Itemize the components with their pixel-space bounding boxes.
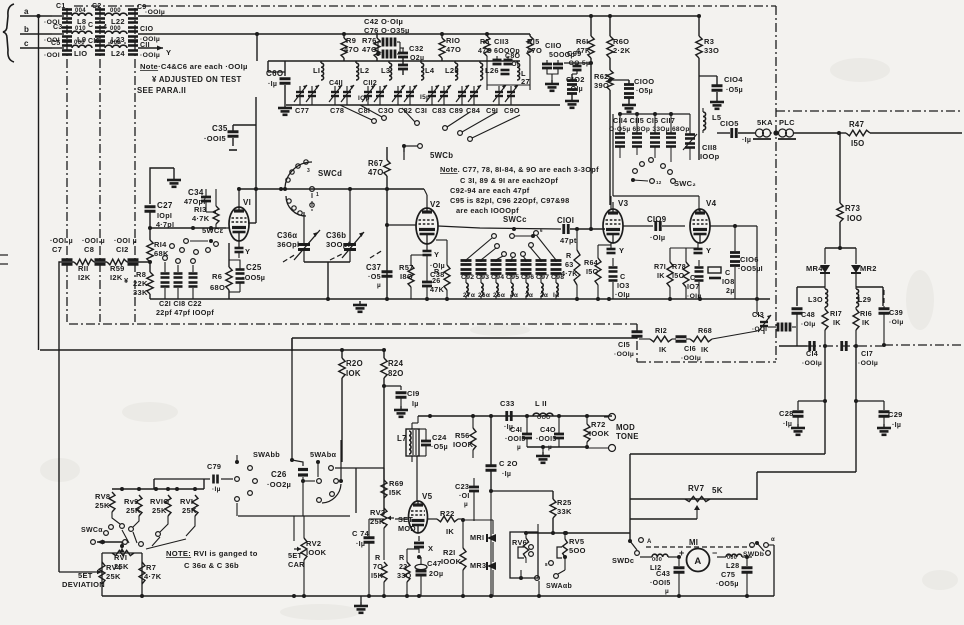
wire main ground bus [150,298,770,300]
wire MR stub left [797,287,825,306]
screen frame right vertical [775,6,777,362]
wire audio down right [854,346,858,472]
potentiometer RV3 [370,508,416,560]
wire R20 vert [340,348,386,352]
svg-text:¥ ADJUSTED ON TEST: ¥ ADJUSTED ON TEST [152,75,242,84]
svg-text:¥: ¥ [124,276,129,285]
svg-text:·OOIµ: ·OOIµ [858,360,878,367]
svg-text:IK: IK [833,318,841,327]
svg-text:·OIµ: ·OIµ [650,233,665,242]
capacitor C37 [366,263,393,289]
screen column 1 [66,8,68,322]
note text oscillator [440,165,599,215]
capacitor C113 [493,37,521,64]
capacitor C107 [687,260,704,300]
wire rv2 col [537,524,539,532]
wire input stub d [0,255,8,264]
svg-text:MRI: MRI [470,533,484,542]
capacitor C17 [842,341,878,367]
svg-text:·OOI µ: ·OOI µ [82,238,105,245]
svg-text:R: R [566,251,572,260]
capacitor C10 [128,26,160,43]
resistor R16 [853,307,872,346]
wire SWCz drop [611,196,699,211]
wire R69 top [355,467,357,469]
screen frame right top horizontal [776,110,962,112]
wire box drop [291,338,293,460]
capacitor C8 [82,238,106,264]
svg-text:C79: C79 [207,462,221,471]
resistor R64 [584,245,601,299]
svg-text:·OI: ·OI [459,493,470,500]
svg-text:I5K: I5K [389,488,402,497]
svg-text:5WCb: 5WCb [430,151,453,160]
capacitor C74 [352,519,384,596]
svg-text:VI: VI [243,198,251,207]
wire rv riser [154,479,210,489]
svg-text:R: R [399,553,405,562]
svg-text:Y: Y [619,246,624,255]
svg-text:I5p: I5p [420,94,430,101]
svg-text:LI: LI [313,66,320,75]
svg-text:4·7K: 4·7K [144,572,162,581]
switch SWCz box [613,114,699,196]
svg-text:C25: C25 [246,263,262,272]
wire rv1 drop [120,542,124,551]
text NOTE ganged [166,549,258,570]
svg-text:5OOOp: 5OOOp [549,52,575,59]
svg-text:SWDc: SWDc [612,556,634,565]
svg-text:36Opl: 36Opl [277,240,299,249]
svg-text:IOK: IOK [346,369,361,378]
ground C27 [167,176,181,187]
capacitor C75 [716,555,753,598]
wire af bus [292,338,637,351]
capacitor C48 [792,309,816,346]
wire mod line [418,414,612,418]
svg-text:C36b: C36b [326,231,346,240]
svg-text:R7I: R7I [654,262,666,271]
svg-text:RII: RII [78,264,88,273]
svg-text:IOOK: IOOK [306,548,327,557]
svg-text:R24: R24 [388,359,404,368]
svg-text:C 36α & C 36b: C 36α & C 36b [184,561,239,570]
svg-text:IOO: IOO [847,214,862,223]
capacitor C25 [229,260,265,292]
capacitor C3 [44,24,72,44]
svg-text:3: 3 [307,168,310,174]
capacitor C43 [650,555,685,598]
svg-text:5WCε: 5WCε [202,226,224,235]
svg-text:82O: 82O [388,369,404,378]
resistor R11 [74,259,94,282]
wire input brace [3,4,14,62]
svg-text:IK: IK [862,318,870,327]
terminal MOD bottom [587,445,616,452]
svg-text:·O5µ: ·O5µ [726,87,743,94]
svg-text:CII4 CII5 CI6 CII7: CII4 CII5 CI6 CII7 [613,116,675,125]
svg-text:C92-94 are each 47pf: C92-94 are each 47pf [450,186,530,195]
resistor R59 [107,259,127,282]
svg-text:C24: C24 [432,433,447,442]
svg-text:25α: 25α [493,292,505,299]
svg-text:47O: 47O [368,168,384,177]
resistor R62 [594,70,613,205]
capacitor C2 [92,3,105,23]
cluster box C113 sides [487,85,530,90]
svg-text:−: − [712,548,718,558]
svg-text:C4I: C4I [510,425,522,434]
svg-text:·OO5µ: ·OO5µ [716,581,739,588]
inductor L8 [72,8,92,26]
svg-text:C77: C77 [295,106,309,115]
svg-text:RI7: RI7 [830,309,842,318]
svg-text:25K: 25K [152,506,167,515]
svg-text:2·2K: 2·2K [613,46,631,55]
box RV4 R7 [102,553,142,596]
svg-text:Y: Y [245,247,250,256]
svg-text:·OOIµ: ·OOIµ [802,360,822,367]
svg-text:26: 26 [432,276,441,285]
wire V5 cathode [414,536,433,559]
capacitor C33 [500,399,515,431]
svg-text:R59: R59 [110,264,125,273]
svg-text:L4: L4 [425,66,435,75]
screen frame bottom left [69,323,637,325]
svg-text:V2: V2 [430,200,441,209]
svg-text:L II: L II [535,399,547,408]
svg-text:47pt: 47pt [560,236,577,245]
svg-text:IO3: IO3 [617,281,630,290]
svg-text:C3I: C3I [415,106,427,115]
svg-text:R56: R56 [455,431,470,440]
wire line c arrow [138,46,171,58]
resistor R9 [341,34,359,61]
svg-text:MR3: MR3 [470,561,486,570]
inductor L4 [421,61,435,80]
resistor R23 [397,549,419,598]
capacitor C118 [700,130,720,161]
resistor R47 [837,120,962,148]
svg-text:SWC₂: SWC₂ [674,179,696,188]
switch SWCz [631,158,696,188]
inductor L10 [72,40,92,58]
svg-text:·Iµ: ·Iµ [502,471,511,478]
svg-text:PLC: PLC [779,118,795,127]
capacitor C110 [542,41,575,91]
svg-text:·OOI5: ·OOI5 [204,134,226,143]
svg-text:R73: R73 [845,204,861,213]
svg-text:·OOI5: ·OOI5 [650,580,671,587]
resistor R22 [428,509,463,536]
capacitor C100 [608,77,654,112]
svg-text:I2K: I2K [78,273,91,282]
svg-text:C75: C75 [721,570,735,579]
resistor R13 [192,189,219,228]
svg-text:DEVIATION: DEVIATION [62,580,105,589]
svg-text:CII8: CII8 [702,143,717,152]
wire C40 bottom [527,445,587,463]
capacitor C7 [50,238,73,264]
svg-text:L22: L22 [111,17,125,26]
text SET DEVIATION [62,571,105,589]
capacitor C105 [717,119,755,144]
wire V4 cathode [694,243,712,255]
svg-text:C32: C32 [409,44,424,53]
svg-text:A: A [647,539,652,545]
capacitor C34 [184,188,211,212]
inductor L30 [808,287,828,307]
capacitor C104 [699,75,743,109]
capacitor C13 [752,299,771,334]
svg-text:39O: 39O [594,81,609,90]
svg-text:Y: Y [706,246,711,255]
capacitor C35 [204,124,239,150]
svg-text:TONE: TONE [616,432,639,441]
inductor L24 [105,40,127,58]
svg-text:·OOI µ: ·OOI µ [50,238,73,245]
switch SWCc fan [466,234,556,260]
wire C20 junction [489,489,553,596]
ground C60 [278,104,292,115]
capacitor C26 [267,458,315,516]
capacitor C101 [557,216,605,245]
wire rv wiper lines [122,530,186,549]
svg-text:C95 is 82pI, C96 22Opf, C97&98: C95 is 82pI, C96 22Opf, C97&98 [450,196,570,205]
wire SWCb stem [403,152,405,160]
svg-text:2α: 2α [540,292,548,299]
inductor L12 [650,554,679,572]
svg-text:C29: C29 [888,410,903,419]
wire C35 riser [233,97,258,223]
capacitor C14 [802,341,822,367]
capacitor C16 [672,337,701,362]
wire rv top bus [112,487,204,491]
svg-text:R: R [375,553,381,562]
svg-text:6: 6 [540,228,543,233]
svg-text:RI2: RI2 [655,326,667,335]
inductor L5 [703,108,721,130]
capacitor C40 [536,416,564,451]
svg-text:Y: Y [434,250,439,259]
connector SKA PLC [753,118,838,139]
svg-text:Iα: Iα [553,292,559,299]
wire C36 bottom [304,262,350,299]
svg-text:C27: C27 [157,201,173,210]
svg-text:CII3: CII3 [494,37,509,46]
svg-text:L24: L24 [111,49,125,58]
capacitor C23 [455,478,479,521]
svg-text:R6: R6 [212,272,222,281]
wire C27 top [150,168,174,204]
svg-text:·Iµ: ·Iµ [268,81,277,88]
svg-text:27α: 27α [463,292,475,299]
potentiometer RV9 [124,495,142,531]
svg-text:RV2: RV2 [306,539,321,548]
svg-text:µ: µ [665,588,669,595]
wire discr dashdot right [884,344,962,346]
svg-text:R72: R72 [591,420,606,429]
valve V4 [690,199,717,243]
wire IF drop [59,262,60,572]
resistor R70 [371,553,387,596]
svg-text:C92: C92 [461,274,474,281]
capacitor C18 [174,259,183,299]
svg-text:CIO6: CIO6 [740,255,759,264]
svg-text:α: α [771,537,775,543]
svg-text:µ: µ [377,282,381,289]
wire discr line [779,344,884,348]
potentiometer RV10 [150,495,171,536]
resistor R76 [362,33,380,61]
svg-text:22K: 22K [133,279,148,288]
wire audio corner right [757,472,856,500]
trimmer labels row [295,106,520,115]
node b [20,25,52,34]
inductor row labels [463,292,559,299]
svg-text:CAR: CAR [288,560,305,569]
valve V3 [603,199,629,243]
svg-text:IK: IK [446,527,454,536]
svg-text:b: b [24,25,29,34]
svg-text:·OOI: ·OOI [44,52,60,59]
svg-text:63: 63 [565,260,574,269]
svg-text:IO8: IO8 [722,277,735,286]
svg-text:C89: C89 [449,106,463,115]
resistor R26 [430,240,450,299]
resistor R67 [368,147,390,299]
wire grid line V1 [150,226,226,230]
capacitor C15 [614,325,643,358]
svg-text:IK: IK [657,271,665,280]
svg-text:·OO5µ: ·OO5µ [242,273,265,282]
svg-text:IOOK: IOOK [441,557,462,566]
svg-text:CI6: CI6 [684,344,696,353]
svg-text:·Iµ: ·Iµ [212,486,221,493]
wire V2 out [438,226,561,229]
resistor R5 [478,32,492,56]
svg-text:C37: C37 [366,263,381,272]
svg-text:C28: C28 [779,409,794,418]
svg-text:Note·C4&C6 are each ·OOIµ: Note·C4&C6 are each ·OOIµ [140,62,248,71]
screen frame top [74,5,776,7]
capacitor C108 [708,267,735,295]
capacitor C22 [189,259,198,299]
svg-text:CIOI: CIOI [557,216,574,225]
switch SWDb [743,537,775,558]
ground bottom bus [354,596,368,613]
svg-text:R69: R69 [389,479,404,488]
switch SWDc [612,538,652,565]
wire left vertical main [38,16,40,350]
wire SWCd line [239,187,424,191]
resistor R25 [550,491,572,535]
svg-text:R2I: R2I [443,548,456,557]
svg-text:MI: MI [689,538,698,547]
svg-text:C9I: C9I [486,106,498,115]
wire rv6 bottom [521,558,526,578]
svg-text:NOTE: RVI is ganged to: NOTE: RVI is ganged to [166,549,258,558]
capacitor C4 [88,22,107,41]
resistor R20 [339,350,363,462]
capacitor C9 [128,4,165,23]
svg-text:25K: 25K [106,572,121,581]
switch SWCb [404,146,453,160]
svg-text:V5: V5 [422,492,433,501]
wire tank top bus [268,60,520,62]
svg-text:C7: C7 [52,245,62,254]
svg-text:SWCc: SWCc [503,215,527,224]
svg-text:C43: C43 [656,569,670,578]
wire meter minus [710,557,726,560]
svg-text:C2I CI8 C22: C2I CI8 C22 [159,299,202,308]
svg-text:IOp: IOp [358,95,370,102]
switch SWCa mid [170,226,224,254]
switch SWCc [503,215,543,238]
wire wiper bus [91,540,144,547]
svg-text:C48: C48 [801,310,815,319]
svg-text:V3: V3 [618,199,629,208]
svg-text:IOpI: IOpI [157,211,172,220]
svg-text:R25: R25 [557,498,572,507]
switch SWAab [546,583,572,590]
capacitor C13 feedthrough [768,323,796,332]
svg-text:RV5: RV5 [569,537,584,546]
potentiometer RV1 [112,548,134,571]
inductor L9 [72,26,92,44]
capacitor C21 C18 C22 labels [156,299,214,317]
svg-text:O·O5µ 68Op 33Oµ 68Op: O·O5µ 68Op 33Oµ 68Op [609,126,690,133]
svg-text:68O: 68O [210,283,225,292]
screen discriminator box bottom [637,361,776,363]
svg-text:C35: C35 [212,124,228,133]
svg-text:·OI: ·OI [509,61,519,68]
svg-text:C4O: C4O [540,425,556,434]
variable capacitor C36b [326,189,364,262]
capacitor C11 [128,42,160,60]
screen column 2 [99,8,101,322]
svg-text:C9O: C9O [504,106,520,115]
capacitor C411 label [329,80,343,87]
svg-text:5KA: 5KA [757,118,773,127]
capacitor C21 [161,256,170,299]
svg-text:·O5µ: ·O5µ [431,444,448,451]
svg-text:C 2O: C 2O [499,459,518,468]
svg-text:C5: C5 [51,40,61,47]
wire set deviation [59,571,95,573]
svg-text:c: c [24,39,29,48]
svg-text:CIOO: CIOO [634,77,654,86]
svg-text:C: C [88,22,93,29]
resistor R73 [837,133,862,250]
resistor R12 [639,326,672,354]
svg-text:I5O: I5O [672,271,685,280]
svg-text:·Iµ: ·Iµ [783,421,792,428]
potentiometer RV8 [95,492,124,528]
svg-text:CIO5: CIO5 [720,119,739,128]
svg-text:C95: C95 [506,274,519,281]
resistor R15 [527,34,542,56]
capacitor row labels [461,274,564,281]
svg-text:IOOK: IOOK [453,440,474,449]
wire line b junctions [255,32,346,61]
resistor R7 [139,562,162,584]
wire line b to filter [52,33,64,35]
svg-text:MR2: MR2 [860,264,877,273]
resistor R21 [441,520,466,596]
svg-text:RV8: RV8 [95,492,110,501]
svg-text:L3: L3 [381,66,390,75]
